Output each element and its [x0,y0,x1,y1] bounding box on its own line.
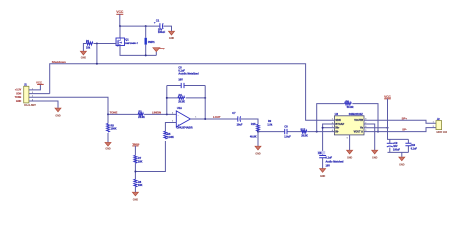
svg-text:24.9K: 24.9K [138,116,145,119]
node junction feedback left R4 [166,97,168,99]
connector J2 [433,118,448,134]
svg-text:Acrylic Metalized: Acrylic Metalized [178,73,199,76]
svg-text:-: - [178,113,179,117]
wire mosfet drain [119,26,121,38]
wire R3 to ground [107,133,109,142]
wire R1 left to ground [83,44,86,52]
op-amp U1A [172,107,197,129]
capacitor C6 (selected) [318,151,344,168]
svg-text:VCC: VCC [116,10,124,14]
svg-text:VCC: VCC [36,80,42,84]
svg-text:GND: GND [347,157,353,160]
wire divider top [134,146,136,156]
svg-text:Audio Matched: Audio Matched [326,161,344,164]
ground GND (R15) [255,146,261,156]
svg-text:50.0R: 50.0R [347,106,354,109]
ground GND (J1) [55,108,61,118]
node junction top rail / mosfet [119,25,121,27]
capacitor C8 [284,125,291,138]
node junction feedback / VOUT A [377,131,379,133]
svg-text:2.94K: 2.94K [167,136,174,139]
svg-text:100K: 100K [111,128,117,131]
svg-text:10K: 10K [138,184,143,187]
ground GND (C6) [320,169,326,179]
wire VCC stem to rail [119,14,121,26]
svg-text:GND: GND [81,57,87,60]
svg-text:Q1: Q1 [125,38,129,41]
wire U3 VOUTA to J2 [364,128,436,132]
svg-text:1.0uF: 1.0uF [284,136,291,139]
svg-text:TONE: TONE [15,96,22,99]
svg-text:20.0K: 20.0K [178,100,185,103]
wire U3 Vs pin6 [364,127,388,129]
wire U3 pin9 pad to ground [349,135,351,150]
wire C5 row [167,85,205,87]
ground GND (C1) [169,31,175,40]
svg-text:GND: GND [16,100,22,103]
resistor R6 [345,101,354,109]
IC U3 SSM2211 [332,113,368,139]
svg-text:DMP1045U-7: DMP1045U-7 [125,42,138,45]
wire input row to U3 [258,131,334,133]
node junction gate/R1/shutdown [96,43,98,45]
svg-text:10uF: 10uF [237,123,243,126]
svg-text:GND: GND [133,199,139,202]
connector J1 [15,83,37,107]
svg-text:TONE: TONE [110,111,118,115]
node junction TONE / R3 [107,113,109,115]
svg-text:LOUT: LOUT [213,115,221,119]
svg-text:U1A: U1A [177,107,182,110]
svg-text:10K: 10K [138,160,143,163]
svg-text:+: + [154,20,156,24]
svg-text:GND: GND [320,175,326,178]
svg-text:GND: GND [55,115,61,118]
svg-text:PMP1: PMP1 [148,41,155,44]
svg-text:IN+: IN+ [335,127,340,130]
svg-text:GND: GND [372,157,378,160]
capacitor C1 [154,19,166,35]
power port Vamp (divider) [132,142,139,146]
svg-text:SDN: SDN [16,92,21,95]
node junction Vs/VCC [387,127,389,129]
svg-text:49.9K: 49.9K [250,136,257,139]
svg-text:SP+: SP+ [402,116,408,120]
node junction shutdown rail [96,63,98,65]
wire J1 pin4 to ground [29,101,58,108]
svg-text:DA-S-SMT: DA-S-SMT [24,104,36,107]
wire mosfet source down to switched rail [120,46,156,56]
svg-text:VOUTB: VOUTB [354,119,363,122]
wire feedback U3 right vertical [352,104,378,132]
node junction R15 bottom [257,131,259,133]
ground GND (U3 pin7) [372,150,378,159]
resistor R2 [138,110,145,119]
ground GND (U3 pad) [347,150,353,159]
svg-text:GND: GND [105,147,111,150]
svg-text:0.1uF: 0.1uF [326,156,333,159]
transistor Q1 [116,38,139,47]
svg-text:20.0K: 20.0K [301,135,308,138]
wire J1 pin1 to VCC [29,85,41,90]
node junction -IN / feedback [316,131,318,133]
ferrite bead PMP1 [145,26,156,55]
wire C6 to ground [322,158,324,169]
wire J1 pin3 (tone input) [29,97,138,114]
resistor R8 [134,179,143,187]
wire divider bottom [134,187,136,192]
svg-text:16V: 16V [178,79,183,82]
wire op-amp + input to divider [135,123,176,172]
resistor R15 [250,123,260,139]
svg-text:VOUT A: VOUT A [354,131,364,134]
svg-text:LINEIN: LINEIN [152,110,161,114]
resistor R3 [107,124,117,133]
svg-text:Vamp: Vamp [159,48,165,50]
svg-text:SP-: SP- [402,128,407,132]
wire shutdown rail [50,64,335,120]
wire R15 to ground [257,132,259,146]
resistor R4 [178,94,185,104]
svg-text:10k: 10k [86,46,91,49]
svg-text:Vamp: Vamp [132,142,139,146]
node junction top rail / PMP1 [145,25,147,27]
wire gate junction down to shutdown rail [96,44,98,64]
svg-text:SDN: SDN [335,119,340,122]
wire U3 GND pin7 [364,124,375,150]
wire TONE junction down to R3 [107,114,109,123]
node junction output/feedback [204,118,206,120]
svg-text:BYCAP: BYCAP [335,123,344,126]
svg-text:VCC: VCC [384,95,391,99]
node junction op-amp inverting input [166,113,168,115]
svg-text:16V: 16V [326,165,331,168]
wire divider middle [134,163,136,179]
svg-text:0.1uF: 0.1uF [411,147,418,150]
node junction BYCAP/IN+ [322,127,324,129]
resistor R5 [164,131,174,139]
power port VCC (J1) [36,80,44,84]
resistor R7 [134,155,143,163]
svg-text:100uF: 100uF [158,31,166,34]
wire feedback right vertical [204,86,206,120]
power port VCC (top) [116,10,124,14]
resistor R1 [86,40,93,49]
svg-text:C1: C1 [156,19,160,23]
svg-text:IN-: IN- [335,131,339,134]
wire U3 BYCAP [323,124,335,155]
svg-text:OPA2374AIDR: OPA2374AIDR [176,126,192,129]
capacitor C9 [387,142,401,152]
wire C1 to ground [163,26,171,31]
node junction feedback right R4 [204,97,206,99]
wire R2 to op-amp [144,113,176,115]
wire feedback U3 left vertical [317,104,345,132]
svg-text:GND: GND [255,153,261,156]
wire U3 VOUTB to J2 [364,120,436,123]
power port VCC (U3) [384,95,391,99]
wire J1 pin2 (shutdown) [29,93,50,95]
value label R9 1.0k [267,120,272,127]
svg-text:100uF: 100uF [393,149,400,152]
wire feedback left vertical [166,86,168,115]
wire R4 row [167,97,205,99]
wire op-amp output [190,119,258,124]
ground GND (R1) [80,51,86,60]
capacitor C7 [232,112,243,126]
wire VCC stem to Vs and caps [388,99,409,140]
wire U3 IN+ [323,127,335,129]
node junction rail / PMP1 bottom [145,54,147,56]
resistor R17 [301,128,309,137]
svg-text:HDR 1X2: HDR 1X2 [437,131,448,134]
node junction divider [134,171,136,173]
svg-text:+3.3V: +3.3V [15,89,22,92]
ground GND (supply caps) [399,157,405,167]
svg-text:R15: R15 [251,123,256,126]
power port Vamp (arrow into switched rail) [153,48,165,56]
wire cap rails [388,139,409,157]
wire R1 to gate junction [94,43,116,45]
wire top rail [120,25,160,27]
svg-text:GND: GND [169,37,175,40]
capacitor C5 [178,67,199,89]
svg-text:GND: GND [399,164,405,167]
ground GND (divider) [132,192,138,202]
ground GND (R3) [105,143,111,151]
capacitor C10 [405,143,417,150]
svg-text:1.0k: 1.0k [267,123,272,126]
